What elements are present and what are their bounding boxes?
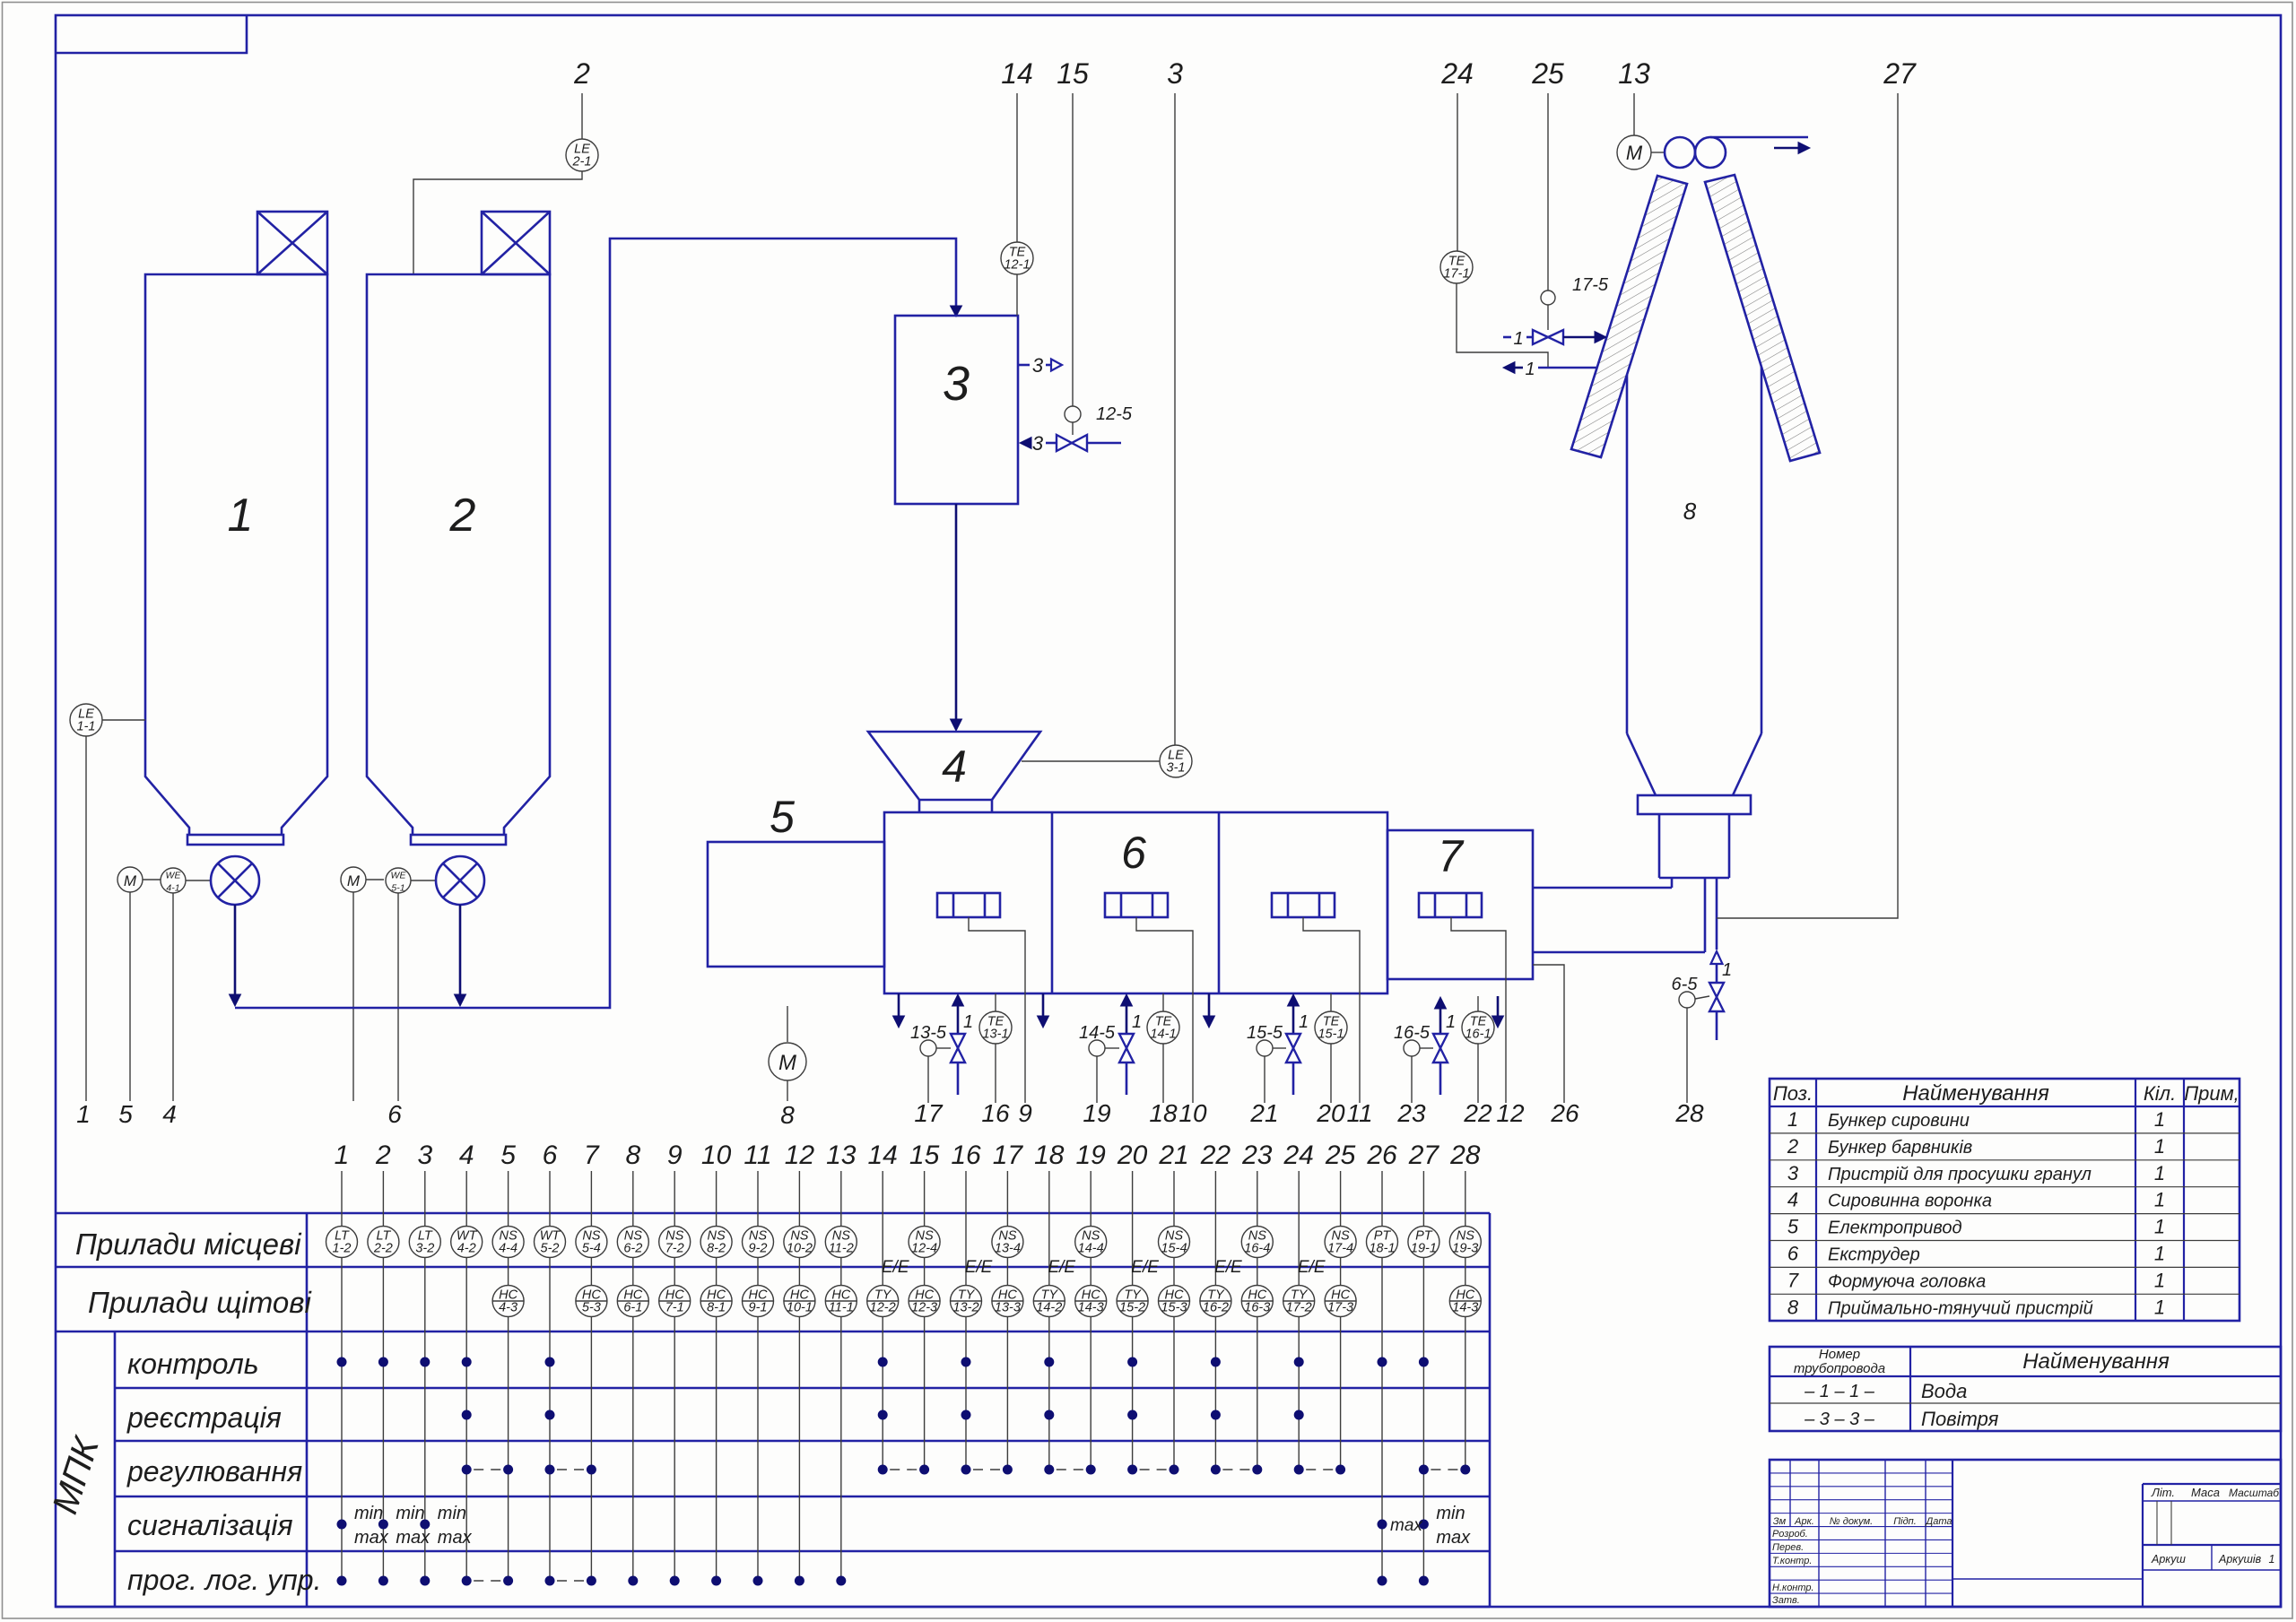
svg-text:регулювання: регулювання <box>126 1455 302 1488</box>
drive motor M <box>769 1006 806 1129</box>
filter box on bunker 2 <box>482 212 550 274</box>
svg-text:13-4: 13-4 <box>995 1242 1021 1256</box>
table column 9 <box>659 1141 691 1581</box>
svg-text:15: 15 <box>1057 57 1089 90</box>
table column 17 <box>992 1141 1023 1470</box>
svg-text:Кіл.: Кіл. <box>2144 1082 2176 1105</box>
svg-text:14: 14 <box>1001 57 1033 90</box>
svg-text:19: 19 <box>1083 1099 1110 1127</box>
svg-text:19-3: 19-3 <box>1452 1242 1478 1256</box>
table column 27 <box>1408 1141 1440 1581</box>
cooling water outlet arrow near valve 15-5 <box>1204 993 1215 1028</box>
svg-text:14: 14 <box>868 1141 898 1170</box>
svg-text:14-2: 14-2 <box>1036 1301 1062 1315</box>
svg-text:2: 2 <box>375 1141 391 1170</box>
svg-text:5: 5 <box>1787 1216 1799 1238</box>
svg-text:13-5: 13-5 <box>910 1023 947 1043</box>
table column 7 <box>576 1141 607 1581</box>
svg-text:Літ.: Літ. <box>2151 1486 2175 1499</box>
svg-text:14-3: 14-3 <box>1078 1301 1104 1315</box>
svg-text:9: 9 <box>667 1141 683 1170</box>
motor M of bunker 2 feeder <box>341 867 384 1101</box>
drain valve with actuator 6-5 <box>1672 960 1733 1127</box>
table column 5 <box>492 1141 524 1581</box>
svg-text:1: 1 <box>1787 1108 1798 1131</box>
signalization row dots <box>337 1504 1472 1548</box>
table column 25 <box>1325 1141 1356 1470</box>
svg-text:17-2: 17-2 <box>1286 1301 1312 1315</box>
svg-text:Повітря: Повітря <box>1921 1408 1999 1430</box>
svg-text:5: 5 <box>500 1141 516 1170</box>
svg-text:9-2: 9-2 <box>749 1242 768 1256</box>
svg-text:max: max <box>1436 1528 1471 1548</box>
belt cooling water return line 1 <box>1503 360 1597 379</box>
svg-text:Н.контр.: Н.контр. <box>1772 1583 1814 1593</box>
svg-text:14-4: 14-4 <box>1078 1242 1104 1256</box>
svg-text:3: 3 <box>1787 1162 1799 1184</box>
svg-text:12-1: 12-1 <box>1004 258 1030 273</box>
table column 28 <box>1449 1141 1481 1470</box>
belt water valve actuator 17-5 <box>1531 57 1609 330</box>
table column 16 <box>951 1141 982 1470</box>
svg-text:11-2: 11-2 <box>829 1242 854 1256</box>
heater of extruder zone 3 <box>1272 893 1335 917</box>
svg-text:2: 2 <box>573 57 590 90</box>
svg-text:WE: WE <box>391 871 407 881</box>
svg-text:1: 1 <box>2154 1216 2165 1238</box>
svg-text:14-1: 14-1 <box>1150 1028 1176 1042</box>
svg-text:16: 16 <box>981 1099 1010 1127</box>
filter box on bunker 1 <box>257 212 327 274</box>
valve actuator 12-5 <box>1057 57 1133 435</box>
svg-text:7: 7 <box>1438 831 1465 881</box>
table column 12 <box>784 1141 815 1581</box>
svg-text:5-2: 5-2 <box>541 1242 560 1256</box>
pipeline legend table <box>1770 1347 2281 1431</box>
svg-text:16-4: 16-4 <box>1244 1242 1270 1256</box>
svg-text:2-2: 2-2 <box>373 1242 393 1256</box>
table column 15 <box>909 1141 940 1470</box>
svg-text:min: min <box>396 1504 424 1523</box>
svg-text:8: 8 <box>625 1141 640 1170</box>
title block <box>1770 1460 2281 1607</box>
table column 8 <box>617 1141 648 1581</box>
svg-text:1: 1 <box>2154 1296 2165 1318</box>
rotary valve of bunker 1 <box>211 856 259 905</box>
table column 11 <box>743 1141 774 1581</box>
svg-text:26: 26 <box>1550 1099 1579 1127</box>
air inlet line 3 to dryer with valve 12-5 <box>1020 432 1121 455</box>
svg-text:9: 9 <box>1018 1099 1032 1127</box>
svg-text:min: min <box>438 1504 466 1523</box>
svg-text:Пристрій для просушки гранул: Пристрій для просушки гранул <box>1828 1165 2092 1184</box>
table column 20 <box>1117 1141 1148 1470</box>
svg-text:5: 5 <box>118 1100 133 1128</box>
svg-text:Електропривод: Електропривод <box>1828 1219 1962 1238</box>
svg-text:2: 2 <box>1787 1135 1798 1158</box>
svg-text:Е/Е: Е/Е <box>1214 1258 1242 1277</box>
svg-text:12-3: 12-3 <box>911 1301 937 1315</box>
svg-text:4: 4 <box>162 1100 177 1128</box>
parts list table <box>1770 1079 2239 1321</box>
haul-off motor M (13) <box>1617 57 1665 169</box>
rotary valve of bunker 2 <box>436 856 484 905</box>
air outlet line 3 from dryer <box>1018 354 1062 377</box>
svg-text:6: 6 <box>387 1100 402 1128</box>
valve actuator 15-5 <box>1247 1023 1286 1127</box>
svg-text:3-1: 3-1 <box>1167 761 1186 776</box>
table column 23 <box>1241 1141 1273 1470</box>
tower neck <box>1659 814 1729 878</box>
svg-text:max: max <box>354 1528 389 1548</box>
svg-text:1: 1 <box>335 1141 350 1170</box>
valve actuator 14-5 <box>1079 1023 1119 1127</box>
svg-text:Підп.: Підп. <box>1893 1516 1917 1527</box>
svg-text:Е/Е: Е/Е <box>882 1258 909 1277</box>
svg-text:Зм: Зм <box>1773 1516 1787 1527</box>
svg-text:Бункер барвників: Бункер барвників <box>1828 1138 1972 1158</box>
svg-text:13: 13 <box>826 1141 857 1170</box>
table column 10 <box>700 1141 732 1581</box>
svg-text:20: 20 <box>1117 1141 1148 1170</box>
cooling water inlet with valve 14-5 <box>1119 994 1142 1095</box>
svg-text:контроль: контроль <box>127 1348 259 1380</box>
svg-text:10: 10 <box>701 1141 732 1170</box>
svg-text:2: 2 <box>449 490 476 542</box>
program logic row dots <box>337 1576 1429 1586</box>
valve actuator 16-5 <box>1394 1023 1433 1127</box>
svg-text:Дата: Дата <box>1924 1516 1952 1527</box>
svg-text:8: 8 <box>1787 1296 1799 1318</box>
extruder body (Екструдер) <box>884 812 1387 993</box>
cooling water outlet arrow near valve 16-5 <box>1492 996 1504 1028</box>
temperature sensor TE 17-1 <box>1440 57 1548 368</box>
svg-text:23: 23 <box>1241 1141 1273 1170</box>
svg-text:11: 11 <box>744 1141 771 1170</box>
svg-text:1: 1 <box>1132 1012 1142 1032</box>
svg-text:13-2: 13-2 <box>952 1301 978 1315</box>
heater lead wire to label 9 <box>969 917 1032 1127</box>
svg-text:15-4: 15-4 <box>1161 1242 1187 1256</box>
svg-text:сигналізація: сигналізація <box>127 1509 293 1541</box>
svg-text:15: 15 <box>909 1141 940 1170</box>
svg-text:1: 1 <box>2154 1269 2165 1291</box>
svg-text:– 3 – 3 –: – 3 – 3 – <box>1804 1409 1875 1429</box>
reestration row dots <box>462 1410 1304 1420</box>
svg-text:20: 20 <box>1316 1099 1345 1127</box>
pneumatic transport line to dryer <box>235 239 962 1008</box>
svg-text:28: 28 <box>1449 1141 1481 1170</box>
svg-text:18: 18 <box>1034 1141 1065 1170</box>
svg-text:М: М <box>347 872 361 889</box>
svg-text:2-1: 2-1 <box>572 155 592 169</box>
level sensor LE 3-1 <box>1022 57 1192 777</box>
cooling water inlet with valve 13-5 <box>951 994 973 1095</box>
svg-text:16-3: 16-3 <box>1244 1301 1270 1315</box>
svg-text:24: 24 <box>1440 57 1474 90</box>
table column 22 <box>1200 1141 1231 1470</box>
svg-text:15-5: 15-5 <box>1247 1023 1283 1043</box>
svg-text:max: max <box>1390 1516 1423 1535</box>
svg-text:трубопровода: трубопровода <box>1794 1361 1885 1376</box>
svg-text:– 1 – 1 –: – 1 – 1 – <box>1804 1382 1875 1401</box>
svg-text:16-5: 16-5 <box>1394 1023 1431 1043</box>
svg-text:1: 1 <box>2154 1243 2165 1265</box>
svg-text:12-5: 12-5 <box>1096 404 1133 424</box>
kontrol row dots <box>337 1357 1429 1367</box>
svg-text:3: 3 <box>1032 354 1044 377</box>
svg-text:5: 5 <box>770 792 795 842</box>
svg-text:Перев.: Перев. <box>1772 1542 1804 1553</box>
svg-text:3: 3 <box>1032 432 1044 455</box>
cooling water outlet arrow near valve 13-5 <box>893 993 905 1028</box>
svg-text:Прилади місцеві: Прилади місцеві <box>75 1227 302 1261</box>
svg-text:Приймально-тянучий пристрій: Приймально-тянучий пристрій <box>1828 1298 2093 1318</box>
svg-text:1: 1 <box>2154 1135 2165 1158</box>
table column 21 <box>1158 1141 1189 1470</box>
svg-text:1-2: 1-2 <box>333 1242 352 1256</box>
bunker 2 discharge pipe <box>455 905 466 1006</box>
table column 26 <box>1366 1141 1397 1581</box>
heater lead wire to label 12 <box>1451 917 1525 1127</box>
svg-text:1: 1 <box>2154 1108 2165 1131</box>
cooling water inlet with valve 16-5 <box>1433 997 1456 1095</box>
left conveyor belt of haul-off device <box>1571 176 1687 457</box>
heater lead wire to label 11 <box>1303 917 1373 1127</box>
svg-text:Бункер сировини: Бункер сировини <box>1828 1111 1970 1131</box>
table column 24 <box>1283 1141 1315 1470</box>
svg-text:4-1: 4-1 <box>166 883 179 894</box>
svg-text:10-1: 10-1 <box>787 1301 813 1315</box>
svg-text:Найменування: Найменування <box>2022 1349 2170 1374</box>
temperature sensor TE 12-1 <box>1001 57 1033 316</box>
svg-text:1: 1 <box>1525 360 1535 379</box>
svg-text:Е/Е: Е/Е <box>965 1258 993 1277</box>
svg-text:Прим,: Прим, <box>2184 1082 2239 1105</box>
temperature sensor TE 13-1 <box>979 993 1012 1127</box>
belt cooling water inlet line 1 <box>1503 329 1606 349</box>
svg-text:Маса: Маса <box>2191 1486 2220 1499</box>
svg-text:прог. лог. упр.: прог. лог. упр. <box>127 1564 321 1596</box>
svg-text:15-2: 15-2 <box>1119 1301 1145 1315</box>
svg-text:6-1: 6-1 <box>623 1301 642 1315</box>
svg-text:3: 3 <box>943 357 970 411</box>
svg-text:16-1: 16-1 <box>1465 1028 1491 1042</box>
svg-text:26: 26 <box>1366 1141 1397 1170</box>
svg-text:21: 21 <box>1249 1099 1278 1127</box>
svg-text:1: 1 <box>228 490 254 542</box>
dryer (Пристрій для просушки гранул) <box>895 316 1018 504</box>
svg-text:5-4: 5-4 <box>582 1242 601 1256</box>
svg-text:17: 17 <box>993 1141 1024 1170</box>
svg-text:15-1: 15-1 <box>1318 1028 1344 1042</box>
svg-text:1-1: 1-1 <box>77 720 96 734</box>
svg-text:17-4: 17-4 <box>1327 1242 1353 1256</box>
svg-text:Е/Е: Е/Е <box>1298 1258 1326 1277</box>
level sensor LE 1-1 <box>70 704 145 1128</box>
table column 18 <box>1033 1141 1065 1470</box>
svg-text:13-1: 13-1 <box>982 1028 1008 1042</box>
svg-text:23: 23 <box>1396 1099 1426 1127</box>
svg-text:1: 1 <box>2269 1553 2275 1566</box>
strand exit line <box>1710 137 1810 154</box>
regulation row dots with dashed links <box>462 1465 1471 1475</box>
svg-text:18: 18 <box>1149 1099 1178 1127</box>
svg-text:17-1: 17-1 <box>1443 267 1469 282</box>
cooling water inlet with valve 15-5 <box>1286 994 1309 1095</box>
instrument table grid <box>56 1213 1490 1607</box>
table column 4 <box>451 1141 483 1581</box>
svg-text:1: 1 <box>2154 1189 2165 1211</box>
svg-text:11: 11 <box>1346 1099 1372 1127</box>
svg-text:7: 7 <box>1787 1269 1799 1291</box>
svg-text:1: 1 <box>1513 329 1523 349</box>
heater of forming head <box>1419 893 1482 917</box>
svg-text:11-1: 11-1 <box>829 1301 854 1315</box>
right conveyor belt of haul-off device <box>1705 175 1820 461</box>
svg-text:1: 1 <box>76 1100 91 1128</box>
table column 6 <box>535 1141 566 1581</box>
svg-text:8: 8 <box>780 1101 795 1129</box>
weight sensor WE 5-1 <box>386 868 436 1128</box>
table column 2 <box>368 1141 399 1581</box>
svg-text:min: min <box>1436 1504 1465 1523</box>
svg-text:25: 25 <box>1325 1141 1356 1170</box>
svg-text:М: М <box>124 872 137 889</box>
svg-text:22: 22 <box>1200 1141 1231 1170</box>
svg-text:8-1: 8-1 <box>707 1301 726 1315</box>
svg-text:12: 12 <box>1496 1099 1525 1127</box>
svg-text:Екструдер: Екструдер <box>1828 1245 1920 1265</box>
svg-text:14-3: 14-3 <box>1452 1301 1478 1315</box>
svg-text:6-2: 6-2 <box>623 1242 642 1256</box>
svg-text:13-3: 13-3 <box>995 1301 1021 1315</box>
table column 13 <box>825 1141 857 1581</box>
svg-text:Аркушів: Аркушів <box>2218 1553 2262 1566</box>
svg-text:4: 4 <box>942 742 967 792</box>
svg-text:№ докум.: № докум. <box>1830 1516 1873 1527</box>
temperature sensor TE 16-1 <box>1462 996 1494 1127</box>
E/E converter labels <box>882 1258 1326 1277</box>
svg-text:Розроб.: Розроб. <box>1772 1529 1808 1540</box>
table column 3 <box>409 1141 440 1581</box>
svg-text:Найменування: Найменування <box>1902 1081 2049 1106</box>
svg-text:18-1: 18-1 <box>1369 1242 1395 1256</box>
svg-text:16: 16 <box>951 1141 981 1170</box>
svg-text:min: min <box>354 1504 383 1523</box>
svg-text:4-3: 4-3 <box>499 1301 517 1315</box>
svg-text:15-3: 15-3 <box>1161 1301 1187 1315</box>
svg-text:реєстрація: реєстрація <box>126 1401 282 1434</box>
svg-text:Поз.: Поз. <box>1773 1082 1813 1105</box>
feed funnel (Сировинна воронка) <box>868 732 1040 812</box>
svg-text:10-2: 10-2 <box>787 1242 813 1256</box>
svg-text:4-2: 4-2 <box>457 1242 476 1256</box>
svg-text:14-5: 14-5 <box>1079 1023 1116 1043</box>
svg-text:Прилади щітові: Прилади щітові <box>88 1286 312 1319</box>
svg-text:4: 4 <box>459 1141 474 1170</box>
svg-text:4-4: 4-4 <box>499 1242 517 1256</box>
svg-text:6: 6 <box>1787 1243 1799 1265</box>
tower body walls <box>1627 367 1761 795</box>
level sensor LE 2-1 <box>413 57 598 273</box>
svg-text:3-2: 3-2 <box>415 1242 434 1256</box>
bunker 2 (Бункер барвників) <box>367 274 550 845</box>
pull rollers <box>1665 137 1726 168</box>
forming head (Формуюча головка) <box>1387 830 1533 979</box>
svg-text:1: 1 <box>1446 1012 1456 1032</box>
svg-text:13: 13 <box>1618 57 1650 90</box>
wire 26 from forming head <box>1533 965 1579 1127</box>
svg-text:1: 1 <box>963 1012 973 1032</box>
svg-text:24: 24 <box>1283 1141 1314 1170</box>
svg-text:12-4: 12-4 <box>911 1242 937 1256</box>
svg-text:8: 8 <box>1683 498 1697 525</box>
svg-text:12-2: 12-2 <box>870 1301 896 1315</box>
svg-text:19: 19 <box>1076 1141 1107 1170</box>
dryer outlet pipe to funnel <box>951 504 962 731</box>
svg-text:12: 12 <box>785 1141 815 1170</box>
svg-text:25: 25 <box>1531 57 1564 90</box>
head water drain pipe <box>1705 878 1723 983</box>
tower neck flange <box>1638 795 1751 814</box>
bunker 1 (Бункер сировини) <box>145 274 327 845</box>
svg-text:3: 3 <box>1167 57 1183 90</box>
svg-text:М: М <box>1626 142 1643 164</box>
svg-text:7-1: 7-1 <box>665 1301 684 1315</box>
table column 14 <box>867 1141 899 1470</box>
temperature sensor TE 15-1 <box>1315 993 1347 1127</box>
svg-text:М: М <box>778 1051 796 1075</box>
svg-text:Т.контр.: Т.контр. <box>1772 1556 1812 1566</box>
svg-text:27: 27 <box>1408 1141 1440 1170</box>
svg-text:Номер: Номер <box>1819 1347 1860 1362</box>
weight sensor WE 4-1 <box>161 868 211 1128</box>
svg-text:17-3: 17-3 <box>1327 1301 1353 1315</box>
svg-text:9-1: 9-1 <box>749 1301 768 1315</box>
svg-text:28: 28 <box>1674 1099 1704 1127</box>
svg-text:22: 22 <box>1463 1099 1492 1127</box>
svg-text:27: 27 <box>1883 57 1917 90</box>
table row labels <box>45 1227 321 1596</box>
svg-text:Затв.: Затв. <box>1772 1595 1800 1606</box>
svg-text:Вода: Вода <box>1921 1380 1967 1402</box>
svg-text:5-1: 5-1 <box>391 883 404 894</box>
svg-text:16-2: 16-2 <box>1203 1301 1229 1315</box>
svg-text:6: 6 <box>1121 828 1146 878</box>
wire 27 to head drain <box>1717 57 1917 918</box>
svg-text:max: max <box>396 1528 430 1548</box>
heater of extruder zone 2 <box>1105 893 1168 917</box>
electric drive (Електропривод) <box>708 792 884 967</box>
svg-text:5-3: 5-3 <box>582 1301 601 1315</box>
cooling water outlet arrow near valve 14-5 <box>1038 993 1049 1028</box>
svg-text:WE: WE <box>166 871 182 881</box>
strand duct from head to tower <box>1533 878 1705 952</box>
svg-text:6: 6 <box>543 1141 558 1170</box>
svg-text:7-2: 7-2 <box>665 1242 684 1256</box>
svg-text:Е/Е: Е/Е <box>1048 1258 1075 1277</box>
valve actuator 13-5 <box>910 1023 951 1127</box>
svg-text:1: 1 <box>2154 1162 2165 1184</box>
svg-text:6-5: 6-5 <box>1672 975 1699 994</box>
motor M of bunker 1 feeder <box>117 867 161 1128</box>
svg-text:4: 4 <box>1787 1189 1798 1211</box>
svg-text:Е/Е: Е/Е <box>1131 1258 1159 1277</box>
svg-text:Масштаб: Масштаб <box>2229 1487 2280 1499</box>
svg-text:Арк.: Арк. <box>1794 1516 1814 1527</box>
svg-text:Сировинна воронка: Сировинна воронка <box>1828 1192 1992 1211</box>
